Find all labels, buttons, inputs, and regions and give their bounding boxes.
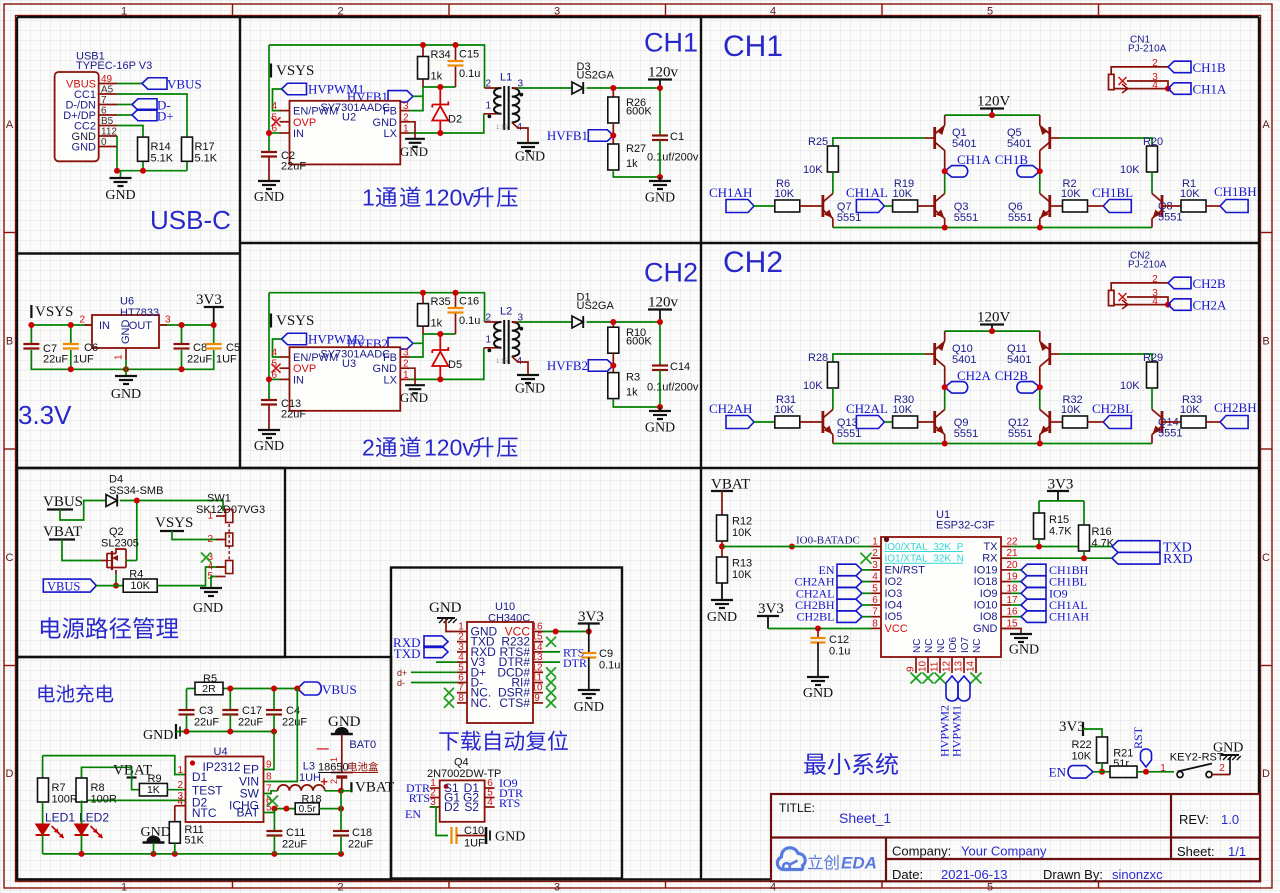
svg-text:B: B [6,336,13,348]
svg-text:Date:: Date: [892,867,923,882]
svg-text:C16: C16 [459,296,479,308]
wire [1093,771,1110,773]
wire [43,756,186,775]
svg-text:3V3: 3V3 [1059,719,1085,735]
svg-text:2: 2 [403,359,409,370]
capacitor C11 [266,830,282,832]
svg-text:VSYS: VSYS [276,63,314,79]
svg-text:VBUS: VBUS [43,494,83,510]
svg-text:10K: 10K [1120,380,1140,392]
wire [120,501,223,512]
svg-text:120v: 120v [424,435,474,461]
ground GND (U1 pin15) [1010,633,1032,635]
svg-text:GND: GND [143,728,173,743]
divider vertical x=240 [239,17,241,468]
svg-text:7: 7 [101,95,107,106]
svg-text:C14: C14 [670,361,690,373]
svg-text:4: 4 [1152,296,1158,307]
wire [325,790,341,792]
wire [413,95,423,97]
wire R to flag CH2BH [1206,421,1220,423]
svg-text:R17: R17 [195,141,215,153]
svg-text:5551: 5551 [1158,428,1182,440]
svg-text:CH2B: CH2B [995,368,1029,383]
svg-text:2: 2 [337,882,343,893]
wire [587,87,661,89]
net flag CH2AH (ESP32 left) [837,576,862,588]
svg-text:2: 2 [485,79,491,90]
svg-text:5: 5 [987,6,993,18]
svg-text:1: 1 [121,882,127,893]
wire base rail right [1050,137,1060,139]
svg-text:5551: 5551 [954,428,978,440]
svg-text:EDA: EDA [841,854,877,873]
net flag HVPWM2 (vertical) [946,676,958,701]
resistor R27 [608,144,619,170]
svg-text:1: 1 [362,185,375,211]
svg-text:GND: GND [645,191,675,206]
capacitor C4 [266,709,282,711]
wire [60,501,106,521]
svg-text:SL2305: SL2305 [101,538,139,550]
wire [722,546,871,548]
svg-text:4.7K: 4.7K [1092,538,1115,550]
wire [211,577,216,589]
svg-text:100R: 100R [52,794,78,806]
wire [172,531,223,540]
junction dots USB ground rail [114,168,120,174]
svg-text:LED1: LED1 [45,811,75,825]
wire [70,325,72,344]
svg-text:22uF: 22uF [43,354,68,366]
block frame outer rectangle [17,16,1259,18]
svg-text:5401: 5401 [1007,354,1031,366]
svg-text:10K: 10K [732,527,752,539]
wire [659,322,661,366]
svg-text:D5: D5 [448,359,462,371]
svg-text:HVPWM1: HVPWM1 [950,705,964,757]
wire [410,87,423,111]
capacitor C10 [450,827,452,844]
svg-text:3: 3 [554,6,560,18]
svg-text:2021-06-13: 2021-06-13 [941,867,1008,882]
wire [229,715,231,732]
svg-text:3: 3 [403,348,409,359]
wire [1060,354,1153,362]
resistor R13 [717,557,728,583]
svg-text:U6: U6 [120,296,134,308]
wire [70,350,72,369]
svg-text:22uF: 22uF [281,409,306,421]
svg-text:9: 9 [906,666,917,672]
ground GND (input cap) [258,429,280,431]
net flag TXD (ESP32) [1112,541,1160,553]
svg-text:5551: 5551 [954,212,978,224]
wire collector columns [944,151,946,172]
transistor Q11 (PNP right) [1048,343,1051,365]
svg-text:GND: GND [574,700,604,715]
svg-text:L1: L1 [500,72,512,84]
wire R to flag CH1BL [1088,205,1104,207]
no-connect X CH340 pins 7,8 [444,688,454,698]
svg-text:22uF: 22uF [281,161,306,173]
svg-text:GND: GND [120,320,132,345]
svg-text:CH1B: CH1B [1193,60,1227,75]
wire R to base (mid left) [918,205,935,207]
svg-text:22uF: 22uF [194,717,219,729]
svg-text:IN: IN [293,128,304,140]
svg-text:CTS#: CTS# [499,696,530,710]
wire [1011,546,1112,548]
svg-text:Company:: Company: [892,844,951,859]
svg-text:BAT: BAT [237,806,260,820]
block title 最小系统 [804,754,826,775]
border row ticks and letters [4,232,16,234]
svg-text:5.1K: 5.1K [151,153,174,165]
wire [117,104,132,106]
wire [1083,729,1102,737]
svg-text:CH1A: CH1A [957,152,992,167]
IC U3 SY7301AADC [290,347,401,411]
no-connect X bottom pins [911,673,922,684]
net flag HVFB2 (divider) [588,360,613,372]
wire [884,205,892,207]
transistor Q13 (NPN far left) [822,411,825,433]
wire R to flag CH2BL [1088,421,1104,423]
svg-text:NC: NC [972,639,983,653]
svg-text:3: 3 [554,882,560,893]
svg-text:CH2AL: CH2AL [846,401,888,416]
svg-text:EN/PWM: EN/PWM [293,352,338,364]
wire [223,688,297,690]
svg-text:600K: 600K [626,336,652,348]
power-path block box [17,468,285,657]
resistor R12 [717,515,728,541]
svg-text:GND: GND [105,188,135,203]
wire [181,325,183,344]
resistor R6 [775,200,800,212]
wire [117,83,142,85]
svg-text:10K: 10K [775,404,795,416]
divider horizontal CH1/CH2 [240,242,1259,244]
net flag VBUS [142,78,167,90]
wire output from transformer pin3 [512,321,518,323]
power flag VBAT (battery) [350,782,352,792]
svg-text:0.1u: 0.1u [829,646,850,658]
svg-text:LED2: LED2 [79,811,109,825]
resistor R35 [422,293,424,304]
svg-text:VCC: VCC [885,623,908,635]
capacitor C12 [817,629,819,639]
wire [117,147,187,171]
svg-text:CH1A: CH1A [1193,82,1228,97]
svg-text:EN/PWM: EN/PWM [293,106,338,118]
wire base to R (mid right) [1050,421,1063,423]
capacitor C17 [222,709,238,711]
svg-text:VBUS: VBUS [322,682,357,697]
svg-text:VSYS: VSYS [276,313,314,329]
capacitor C13 (input) [261,399,277,401]
junction dots top rail [420,290,426,296]
svg-text:120V: 120V [977,310,1011,326]
junction GND pins [116,136,118,147]
svg-text:d-: d- [397,678,405,688]
svg-text:Sheet_1: Sheet_1 [839,810,891,826]
svg-text:2: 2 [872,548,878,559]
svg-text:2: 2 [79,315,85,326]
svg-text:1k: 1k [626,158,638,170]
svg-text:1.0: 1.0 [1221,812,1239,827]
transistor Q14 (NPN far right) [1161,411,1164,433]
wire [268,45,270,152]
svg-text:D1: D1 [192,770,208,784]
capacitor C3 [179,709,195,711]
svg-text:9: 9 [534,693,540,704]
svg-text:SW1: SW1 [207,493,231,505]
wire [269,45,485,88]
svg-text:PJ-210A: PJ-210A [1128,44,1167,55]
resistor R32 [1063,416,1088,428]
svg-text:9: 9 [266,760,272,771]
svg-text:OVP: OVP [293,363,316,375]
wire [659,140,661,177]
svg-text:C: C [1262,552,1270,564]
wire bottom rail [832,219,834,228]
svg-text:10K: 10K [732,569,752,581]
resistor R11 [175,805,186,807]
wire [82,767,132,778]
svg-text:0.1u: 0.1u [459,315,480,327]
svg-text:R7: R7 [52,782,66,794]
svg-text:R22: R22 [1072,739,1092,751]
wire [264,809,296,813]
svg-text:EN: EN [405,807,421,821]
svg-text:1:15: 1:15 [496,125,508,131]
svg-text:R25: R25 [808,136,828,148]
wire [125,360,127,376]
svg-text:R35: R35 [431,296,451,308]
svg-text:1:15: 1:15 [496,359,508,365]
wire R to base [800,205,823,207]
transistor Q5 (PNP right) [1048,127,1051,149]
svg-text:2: 2 [329,779,339,784]
svg-text:4.7K: 4.7K [1049,526,1072,538]
svg-text:GND: GND [803,686,833,701]
wire [1011,581,1021,583]
svg-text:Drawn By:: Drawn By: [1043,867,1103,882]
svg-text:IO6: IO6 [948,636,959,653]
svg-text:D2: D2 [448,114,462,126]
wire [613,170,660,177]
svg-text:C15: C15 [459,49,479,61]
transistor Q1 (PNP left) [933,127,936,149]
net flag CH2BH (ESP32 left) [837,599,862,611]
wire [659,370,661,407]
wire [768,628,871,630]
wire [945,330,1040,332]
svg-text:3: 3 [872,560,878,571]
wire [213,325,215,344]
svg-text:GND: GND [193,601,223,616]
svg-text:1UF: 1UF [464,838,485,850]
no-connect X on switch pin3 [201,553,211,563]
svg-text:A5: A5 [101,85,114,96]
wire [518,87,573,89]
svg-text:C1: C1 [670,131,684,143]
wire [945,114,1040,116]
svg-text:IO19: IO19 [974,564,998,576]
svg-text:REV:: REV: [1179,812,1209,827]
resistor R20 [1147,146,1158,172]
wire [264,732,275,770]
wire feedback divider [612,123,614,144]
svg-text:C9: C9 [599,648,613,660]
svg-text:10K: 10K [893,404,913,416]
power flag VSYS (3.3V block) [30,305,32,318]
svg-text:5: 5 [987,882,993,893]
wire [42,756,44,778]
capacitor C5 [206,343,222,345]
svg-text:1: 1 [114,354,125,360]
resistor R34 [422,45,424,57]
svg-text:GND: GND [515,150,545,165]
wire [1151,388,1153,410]
svg-text:L2: L2 [500,306,512,318]
svg-text:GND: GND [254,439,284,454]
svg-text:10: 10 [918,660,929,672]
diode D1 US2GA [572,316,583,328]
resistor R2 [1063,200,1088,212]
svg-text:D: D [6,768,14,780]
svg-text:A: A [6,119,14,131]
wire GND pin 15 [1001,629,1021,635]
svg-text:GND: GND [373,363,398,375]
svg-text:IO9: IO9 [980,588,998,600]
wire [410,348,484,380]
svg-text:10K: 10K [893,188,913,200]
net flag EN (ESP32 left) [837,564,862,576]
svg-text:2: 2 [207,534,213,545]
wire [341,790,351,792]
svg-text:PJ-210A: PJ-210A [1128,260,1167,271]
resistor R22 [1097,737,1108,763]
wire [181,350,183,369]
svg-text:1: 1 [403,124,409,135]
capacitor C7 [23,343,39,345]
svg-text:6: 6 [872,595,878,606]
net flag CH2BL (ESP32 left) [837,611,862,623]
wire [543,661,560,663]
svg-text:11: 11 [930,661,941,672]
svg-text:C3: C3 [199,705,213,717]
svg-text:10K: 10K [1180,404,1200,416]
net flag CH2B (CN pin2) [1168,277,1191,289]
svg-text:IO7: IO7 [960,636,971,653]
svg-text:FB: FB [383,352,397,364]
wire [81,835,83,854]
wire bottom rail [832,435,834,444]
svg-text:18650: 18650 [318,762,349,774]
diode D3 US2GA [572,82,583,94]
svg-text:12: 12 [942,660,953,672]
svg-text:IN: IN [99,320,110,332]
svg-text:C12: C12 [829,634,849,646]
resistor R7 [38,778,49,802]
power flag VSYS [270,64,272,78]
svg-text:B: B [1262,336,1269,348]
svg-text:1: 1 [121,6,127,18]
svg-text:1k: 1k [431,318,443,330]
svg-text:5.1K: 5.1K [195,153,218,165]
divider horizontal y=468 [17,467,1259,469]
ground GND (C9) [578,689,600,691]
svg-text:IO10: IO10 [974,600,998,612]
svg-text:CH2A: CH2A [957,368,992,383]
resistor R33 [1181,416,1206,428]
wire base rail left [925,137,935,139]
wire [862,616,871,618]
svg-text:sinonzxc: sinonzxc [1112,867,1163,882]
wire R13 to ground [721,583,723,600]
wire [1039,171,1041,193]
svg-text:1UF: 1UF [73,354,94,366]
svg-text:S2: S2 [464,800,479,814]
svg-text:3: 3 [165,315,171,326]
svg-text:R34: R34 [431,49,451,61]
wire [430,807,448,836]
logo 立创EDA [777,848,805,870]
resistor R31 [775,416,800,428]
resistor R3 [608,373,619,399]
svg-text:IO5: IO5 [885,611,903,623]
svg-text:8: 8 [872,618,878,629]
svg-text:VBAT: VBAT [43,524,82,540]
wire [754,205,775,207]
wire base rail right [1050,353,1060,355]
svg-text:22uF: 22uF [282,839,307,851]
border column ticks and numbers [232,4,234,16]
capacitor C1 [652,134,668,136]
svg-text:RX: RX [982,553,998,565]
wire [1060,138,1153,146]
svg-text:VBUS: VBUS [167,77,202,92]
svg-text:Q4: Q4 [454,757,469,769]
svg-text:C11: C11 [286,827,305,839]
svg-text:1/1: 1/1 [1228,844,1246,859]
svg-text:U3: U3 [342,358,356,370]
wire [176,731,180,733]
wire [273,689,275,711]
svg-text:2: 2 [177,780,183,791]
ground GND (transformer) [517,142,539,144]
wire [410,114,484,133]
wire [340,836,342,854]
net flag HVPWM1 [282,83,307,95]
wire [754,421,775,423]
wire collector columns [944,367,946,388]
svg-text:IO18: IO18 [974,576,998,588]
svg-text:L3: L3 [303,761,315,773]
wire [518,321,573,323]
svg-text:TXD: TXD [394,646,421,661]
block title 下载自动复位 [439,732,458,750]
svg-text:1UF: 1UF [216,354,237,366]
svg-text:NC: NC [912,639,923,653]
wire [126,560,137,562]
svg-text:EN/RST: EN/RST [885,564,926,576]
svg-text:IO8: IO8 [980,611,998,623]
svg-text:C8: C8 [193,342,207,354]
